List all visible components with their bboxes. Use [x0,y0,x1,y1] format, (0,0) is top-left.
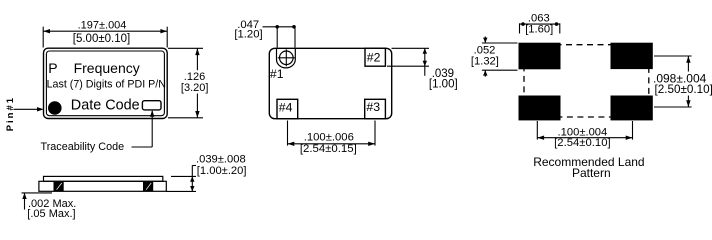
dimension .039 extension line top [392,47,430,49]
dimension label [5.00±0.10] [73,33,130,45]
svg-text:[5.00±0.10]: [5.00±0.10] [73,33,130,45]
dimension label [2.54±0.15] [300,143,357,155]
dimension .052 extension line bottom [482,69,518,71]
side view left pad [54,181,64,191]
dimension .098±.004 line with arrows [686,56,690,107]
caption Pattern [572,166,611,180]
pad #1 outline (castellation) [277,48,296,68]
label Traceability Code [41,141,125,153]
traceability code box [142,101,161,110]
dimension .063 extension line right [559,23,561,33]
svg-text:[2.50±0.10]: [2.50±0.10] [655,83,712,96]
pad #2 outline [365,48,385,66]
top view text Date Code [71,98,140,114]
dimension label .126 [184,71,205,83]
dimension .063 extension line left [519,23,521,33]
dimension .039 line with arrows [423,48,427,76]
dimension .039 extension line bottom [387,65,429,67]
dimension .098±.004 extension line bottom [654,106,692,108]
dimension label .098±.004 [653,71,707,85]
dimension .100±.006 line with arrows [288,142,376,146]
dimension label [1.00±.20] [197,165,247,177]
dimension label .052 [474,45,496,57]
land pattern pad bottom-right [611,96,653,121]
dimension label .039 [432,68,454,80]
dimension .047 leader with dots [263,25,296,29]
dimension label .047 [237,19,259,31]
traceability leader line [132,110,155,147]
svg-text:[2.54±0.15]: [2.54±0.15] [300,143,357,155]
dimension .100±.004 extension line left [536,121,538,140]
dimension .052 arrows [483,37,487,77]
dimension label [2.50±0.10] [655,83,712,96]
side view base [39,181,166,191]
dimension label .100±.006 [304,131,354,143]
svg-text:.100±.006: .100±.006 [304,131,354,143]
dimension .126 extension line bottom [168,117,203,119]
svg-text:#2: #2 [367,51,381,65]
svg-text:Pattern: Pattern [572,166,611,180]
svg-text:[.05 Max.]: [.05 Max.] [27,208,75,220]
dimension .100±.004 extension line right [632,121,634,140]
dimension label [1.20] [234,29,262,41]
svg-text:[1.60]: [1.60] [525,24,553,36]
dimension label [1.00] [429,79,458,91]
top view package outer outline [44,48,168,118]
dimension .063 line with dots [520,22,560,26]
dimension label .197±.004 [78,20,127,32]
dimension label [2.54±0.10] [554,137,610,149]
bottom view package outline [269,48,391,118]
dimension label [1.60] [525,24,553,36]
pad label #2 [367,51,381,65]
dimension label .039±.008 [196,154,246,166]
dimension label .063 [528,12,550,24]
svg-text:#4: #4 [279,100,293,114]
svg-text:Date Code: Date Code [71,98,140,114]
dimension label [.05 Max.] [27,208,75,220]
svg-text:.039±.008: .039±.008 [196,154,246,166]
dimension .126 line with arrows [195,48,199,118]
dimension .052 extension line top [482,42,518,44]
label Pin#1 (rotated) [5,96,16,131]
seating plane line [22,192,53,194]
dimension .047 extension line left [276,27,278,48]
land pattern dashed outline [524,45,649,117]
dimension .197±.004 line with arrows [43,29,167,33]
pad #3 outline [365,99,386,118]
dimension .197±.004 extension line right [166,27,168,48]
dimension label .002 Max. [28,198,76,210]
side view right pad [143,181,153,191]
land pattern pad top-left [519,43,561,70]
svg-text:.197±.004: .197±.004 [78,20,127,32]
dimension .100±.006 extension line right [374,121,376,146]
top view package inner outline [46,51,164,116]
leader arrow to pin 1 [14,107,44,111]
land pattern pad bottom-left [519,96,561,121]
dimension .039±.008 extension line bottom [166,190,196,192]
svg-text:[3.20]: [3.20] [181,82,209,94]
svg-text:Frequency: Frequency [74,60,140,76]
svg-text:Pin#1: Pin#1 [5,96,16,131]
svg-text:#1: #1 [270,67,284,81]
pin 1 index dot [48,101,62,115]
top view text Frequency [74,60,140,76]
dimension .039±.008 line with arrows [190,166,196,192]
dimension .100±.004 line with arrows [537,136,632,140]
side view lid [44,176,163,181]
dimension label .100±.004 [558,126,608,138]
pad label #1 [270,67,284,81]
pad label #4 [279,100,293,114]
top view text P [48,60,57,76]
dimension .126 extension line top [168,47,203,49]
svg-text:Traceability Code: Traceability Code [41,141,125,153]
svg-text:[1.00]: [1.00] [429,79,458,91]
svg-text:[1.32]: [1.32] [471,55,499,67]
dimension .039±.008 extension line top [171,175,196,177]
caption Recommended Land [533,155,644,169]
pin 1 circle with crosshair [278,49,295,66]
dimension label [3.20] [181,82,209,94]
svg-text:#3: #3 [366,100,380,114]
dimension .098±.004 extension line top [654,55,692,57]
pad #4 outline [277,99,298,118]
pad label #3 [366,100,380,114]
dimension .100±.006 extension line left [287,121,289,146]
dimension label [1.32] [471,55,499,67]
svg-text:[1.20]: [1.20] [234,29,262,41]
svg-text:[1.00±.20]: [1.00±.20] [197,165,247,177]
land pattern pad top-right [611,43,653,69]
svg-text:[2.54±0.10]: [2.54±0.10] [554,137,610,149]
svg-text:P: P [48,60,57,76]
svg-text:Last (7) Digits of PDI P/N: Last (7) Digits of PDI P/N [47,79,166,91]
dimension .197±.004 extension line left [42,27,44,48]
top view text Last (7) Digits of PDI P/N [47,79,166,91]
dimension .047 extension line right [294,27,296,48]
dimension .002 Max arrow [22,193,26,210]
